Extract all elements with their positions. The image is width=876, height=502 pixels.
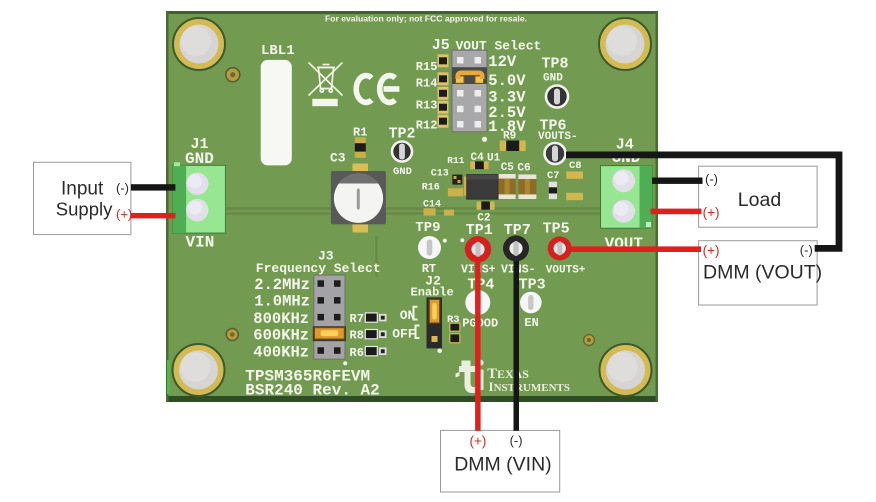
wire VOUT- black (J4 GND to Load): [652, 178, 703, 184]
CE mark: [356, 76, 399, 103]
svg-text:R14: R14: [416, 76, 438, 90]
svg-text:R12: R12: [416, 118, 438, 132]
svg-text:(+): (+): [703, 243, 720, 258]
svg-text:For evaluation only; not FCC a: For evaluation only; not FCC approved fo…: [325, 14, 527, 24]
svg-text:DMM (VIN): DMM (VIN): [454, 454, 551, 476]
via near bottom-left hole: [226, 329, 238, 341]
svg-text:(+): (+): [470, 434, 487, 449]
svg-text:Input: Input: [61, 178, 104, 199]
resistor R15 chip: [438, 54, 449, 67]
IC U1: [464, 175, 502, 200]
svg-text:R7: R7: [350, 312, 364, 326]
TI logo bug: [456, 360, 484, 393]
svg-text:400KHz: 400KHz: [253, 344, 309, 362]
resistor R13 chip: [438, 101, 449, 114]
svg-text:5.0V: 5.0V: [488, 72, 526, 90]
svg-text:GND: GND: [543, 73, 563, 85]
wire VINS+ red (TP1 to DMM VIN plus): [475, 249, 481, 430]
test point TP4 (PGOOD): [465, 290, 490, 315]
resistor R3 chips: [450, 323, 460, 343]
svg-text:C3: C3: [330, 151, 346, 166]
WEEE crossed-out bin symbol: [309, 63, 343, 96]
test point TP3 (EN): [520, 292, 542, 314]
resistor R6 chips: [365, 347, 386, 356]
via near top-left hole: [226, 68, 240, 82]
resistor R9: [500, 141, 526, 152]
capacitor C6: [518, 174, 536, 199]
WEEE bar: [312, 99, 337, 106]
test point TP1 (VINS+): [465, 236, 491, 262]
resistor R14 chip: [438, 72, 449, 85]
svg-text:LBL1: LBL1: [261, 43, 295, 59]
J2 ON bracket: [414, 307, 418, 320]
svg-text:C6: C6: [517, 163, 530, 175]
wire VIN- black (Input Supply to J1 GND): [131, 184, 176, 190]
via near bottom-right hole: [584, 335, 595, 346]
annotation box DMM (VOUT): [699, 241, 818, 305]
resistor R7 chips: [365, 313, 386, 322]
wire VINS- black (TP7 to DMM VIN minus): [514, 248, 520, 430]
faint trace lines: [176, 209, 652, 278]
capacitor C7: [549, 182, 557, 199]
svg-text:TP2: TP2: [389, 126, 416, 143]
inductor C3 (Panasonic): [331, 164, 386, 233]
silk dot J2: [437, 349, 442, 354]
svg-text:DMM (VOUT): DMM (VOUT): [703, 262, 822, 284]
mounting hole top-right: [599, 18, 651, 70]
svg-text:(+): (+): [703, 205, 720, 220]
svg-text:R16: R16: [422, 183, 440, 194]
wire VOUTS- black (TP6 to DMM VOUT minus): [566, 155, 839, 249]
test point TP9 (RT): [418, 236, 441, 259]
test point TP2: [392, 142, 412, 162]
wire VOUT+ red (J4 VOUT to Load): [651, 209, 702, 215]
resistor R10 chip: [438, 87, 449, 100]
svg-text:Enable: Enable: [411, 285, 454, 299]
svg-text:2.2MHz: 2.2MHz: [254, 276, 310, 294]
svg-text:(-): (-): [800, 243, 813, 258]
silk dot TP5 right: [586, 247, 590, 251]
svg-text:R15: R15: [416, 60, 438, 74]
svg-text:R11: R11: [447, 155, 464, 166]
svg-text:R6: R6: [350, 346, 364, 360]
svg-text:EN: EN: [524, 316, 538, 330]
silk dot J5: [482, 137, 487, 142]
svg-text:C5: C5: [501, 162, 515, 174]
capacitor C4: [470, 161, 488, 169]
test point TP5 (VOUTS+): [548, 236, 572, 260]
connector J4 terminal block: [601, 166, 653, 229]
wire VIN+ red (Input Supply to J1 VIN): [131, 213, 176, 218]
svg-text:INSTRUMENTS: INSTRUMENTS: [489, 379, 570, 394]
mounting hole bottom-left: [173, 344, 225, 396]
small chip near R11: [452, 175, 462, 185]
capacitor C8: [566, 171, 583, 178]
header J3 (2x5 pins): [314, 275, 345, 359]
svg-text:C13: C13: [431, 168, 449, 179]
LBL1 white label area: [261, 60, 292, 165]
svg-text:OFF: OFF: [392, 327, 416, 342]
connector J1 terminal block: [173, 162, 226, 233]
test point TP8: [546, 86, 568, 108]
svg-text:VOUTS+: VOUTS+: [546, 265, 586, 277]
resistor R1: [355, 137, 366, 158]
svg-text:(-): (-): [510, 433, 523, 448]
svg-text:GND: GND: [393, 166, 412, 178]
svg-text:U1: U1: [487, 153, 501, 165]
pad left of U1: [448, 188, 464, 196]
resistor R8 chips: [365, 330, 386, 339]
svg-text:VIN: VIN: [186, 234, 215, 252]
J2 OFF bracket: [416, 326, 420, 339]
svg-text:Supply: Supply: [56, 199, 113, 220]
svg-text:R8: R8: [350, 329, 364, 343]
svg-text:TP8: TP8: [542, 55, 569, 72]
PCB board TPSM365R6FEVM: [166, 11, 658, 402]
wire VOUTS+ red (TP5 to DMM VOUT plus): [560, 246, 701, 252]
svg-text:1.0MHz: 1.0MHz: [254, 293, 310, 311]
svg-text:TP3: TP3: [519, 276, 546, 293]
silk dot J3: [343, 361, 347, 365]
test point TP6: [545, 143, 566, 164]
silk dot TP9 right: [443, 239, 447, 243]
svg-text:BSR240 Rev. A2: BSR240 Rev. A2: [245, 381, 379, 399]
header J2 (1x3 pins): [427, 297, 443, 348]
svg-text:C8: C8: [569, 160, 582, 172]
silk dot TP1 left: [460, 238, 464, 242]
header J5 (2x5 pins): [452, 50, 487, 132]
capacitor C2: [477, 202, 495, 210]
svg-text:TEXAS: TEXAS: [487, 366, 529, 382]
svg-text:VOUTS-: VOUTS-: [538, 131, 578, 143]
jumper on J3 (600KHz position): [313, 326, 346, 341]
svg-text:800KHz: 800KHz: [253, 310, 309, 328]
svg-text:TP5: TP5: [543, 220, 570, 237]
test point TP7 (VINS-): [503, 235, 529, 261]
annotation box Input Supply: [34, 162, 131, 234]
resistor R12 chip: [438, 115, 449, 128]
svg-text:12V: 12V: [488, 53, 517, 71]
svg-text:(+): (+): [116, 207, 132, 222]
pad lower-left of U1: [444, 210, 454, 216]
svg-text:(-): (-): [116, 181, 129, 196]
svg-text:R13: R13: [416, 98, 438, 112]
svg-text:Load: Load: [738, 189, 781, 211]
annotation box Load: [699, 166, 818, 227]
svg-text:(-): (-): [705, 172, 718, 187]
svg-text:TP9: TP9: [415, 220, 440, 236]
jumper on J2 (ON position): [429, 299, 439, 323]
svg-text:Frequency Select: Frequency Select: [256, 261, 381, 276]
svg-text:J5: J5: [432, 37, 450, 54]
annotation box DMM (VIN): [441, 430, 560, 492]
pad below C8: [566, 193, 583, 200]
svg-text:600KHz: 600KHz: [253, 327, 309, 345]
jumper on J5 (5.0V position): [452, 67, 487, 84]
mounting hole top-left: [173, 18, 225, 70]
capacitor C5: [499, 174, 516, 199]
pad near C14: [424, 208, 436, 215]
mounting hole bottom-right: [600, 344, 652, 396]
svg-text:C7: C7: [547, 170, 560, 182]
